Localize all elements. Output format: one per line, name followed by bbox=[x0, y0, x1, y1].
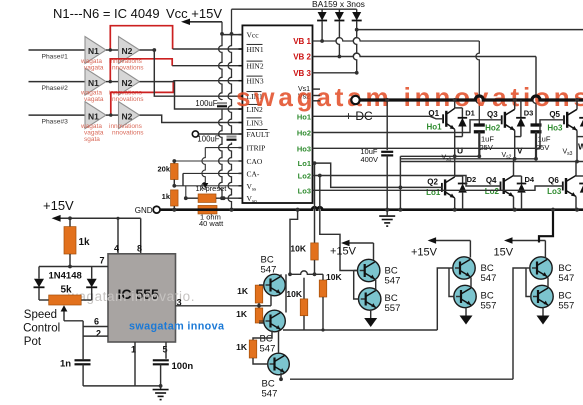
svg-text:Ho3: Ho3 bbox=[547, 123, 563, 132]
svg-text:25V: 25V bbox=[480, 143, 493, 152]
svg-text:Ho2: Ho2 bbox=[485, 123, 501, 132]
svg-text:1k: 1k bbox=[79, 237, 91, 248]
svg-text:Lo2: Lo2 bbox=[485, 187, 500, 196]
svg-text:6: 6 bbox=[94, 317, 99, 327]
svg-text:N2: N2 bbox=[122, 46, 133, 56]
svg-text:Ho3: Ho3 bbox=[297, 144, 311, 153]
svg-text:5: 5 bbox=[163, 345, 168, 355]
svg-text:Q6: Q6 bbox=[548, 176, 559, 185]
svg-text:Q4: Q4 bbox=[486, 176, 497, 185]
svg-text:swagatam innova: swagatam innova bbox=[129, 321, 225, 333]
svg-text:20k: 20k bbox=[157, 165, 170, 174]
svg-text:547: 547 bbox=[262, 389, 278, 400]
svg-text:D4: D4 bbox=[525, 175, 535, 184]
svg-text:N2: N2 bbox=[122, 111, 133, 121]
svg-text:W: W bbox=[578, 142, 583, 152]
svg-text:40 watt: 40 watt bbox=[199, 219, 224, 228]
svg-text:100uF: 100uF bbox=[197, 135, 219, 144]
svg-text:Lo1: Lo1 bbox=[426, 188, 441, 197]
svg-text:100n: 100n bbox=[172, 361, 194, 372]
svg-text:N1: N1 bbox=[88, 46, 99, 56]
svg-text:1k: 1k bbox=[162, 192, 171, 201]
svg-text:1n: 1n bbox=[60, 359, 71, 370]
svg-text:5k: 5k bbox=[61, 285, 73, 296]
svg-text:V: V bbox=[517, 146, 523, 156]
svg-text:GND: GND bbox=[135, 206, 153, 215]
svg-text:HIN2: HIN2 bbox=[247, 62, 264, 71]
svg-text:vagata: vagata bbox=[84, 96, 104, 103]
svg-text:VB 1: VB 1 bbox=[293, 37, 311, 46]
svg-text:N1: N1 bbox=[88, 78, 99, 88]
svg-text:557: 557 bbox=[558, 301, 574, 312]
svg-text:N1---N6 = IC 4049: N1---N6 = IC 4049 bbox=[53, 6, 160, 21]
svg-text:4: 4 bbox=[114, 244, 119, 254]
svg-text:Lo1: Lo1 bbox=[298, 159, 311, 168]
svg-text:CA-: CA- bbox=[247, 169, 260, 178]
svg-text:Phase#1: Phase#1 bbox=[42, 54, 69, 61]
svg-text:557: 557 bbox=[481, 301, 497, 312]
svg-text:Ho1: Ho1 bbox=[426, 122, 442, 131]
svg-text:D3: D3 bbox=[524, 109, 534, 118]
svg-text:BA159 x 3nos: BA159 x 3nos bbox=[312, 0, 365, 9]
svg-text:ITRIP: ITRIP bbox=[247, 144, 266, 153]
svg-text:vagata: vagata bbox=[84, 65, 104, 72]
svg-text:Q2: Q2 bbox=[427, 177, 438, 186]
svg-text:+15V: +15V bbox=[43, 198, 74, 213]
svg-text:D2: D2 bbox=[467, 175, 477, 184]
svg-text:100uF: 100uF bbox=[195, 99, 217, 108]
svg-text:400V: 400V bbox=[360, 155, 378, 164]
svg-text:10K: 10K bbox=[290, 244, 306, 254]
svg-text:nnovations: nnovations bbox=[112, 130, 144, 137]
svg-text:LIN3: LIN3 bbox=[247, 119, 263, 128]
svg-text:547: 547 bbox=[260, 344, 276, 355]
svg-text:U: U bbox=[457, 146, 463, 156]
svg-text:Ho2: Ho2 bbox=[297, 129, 311, 138]
svg-text:10K: 10K bbox=[286, 289, 302, 299]
svg-text:D1: D1 bbox=[465, 109, 475, 118]
svg-text:8: 8 bbox=[137, 244, 142, 254]
svg-text:Q3: Q3 bbox=[487, 110, 498, 119]
svg-text:HIN1: HIN1 bbox=[247, 45, 264, 54]
svg-text:1N4148: 1N4148 bbox=[49, 271, 82, 282]
svg-text:CAO: CAO bbox=[247, 157, 263, 166]
svg-text:1k preset: 1k preset bbox=[196, 184, 228, 193]
svg-text:2: 2 bbox=[96, 329, 101, 339]
svg-text:+15V: +15V bbox=[411, 247, 438, 259]
svg-text:10K: 10K bbox=[326, 272, 342, 282]
svg-text:Phase#3: Phase#3 bbox=[42, 119, 69, 126]
svg-text:547: 547 bbox=[558, 273, 574, 284]
svg-text:Pot: Pot bbox=[24, 336, 42, 348]
svg-text:Ho1: Ho1 bbox=[297, 112, 311, 121]
svg-text:N1: N1 bbox=[88, 111, 99, 121]
svg-text:Vcc +15V: Vcc +15V bbox=[166, 6, 222, 21]
svg-text:Vcc: Vcc bbox=[247, 31, 260, 40]
svg-text:Lo3: Lo3 bbox=[547, 187, 562, 196]
svg-text:547: 547 bbox=[481, 273, 497, 284]
svg-text:Lo2: Lo2 bbox=[298, 172, 311, 181]
svg-text:15V: 15V bbox=[494, 247, 514, 259]
svg-text:FAULT: FAULT bbox=[247, 130, 270, 139]
svg-text:N2: N2 bbox=[122, 78, 133, 88]
svg-text:1K: 1K bbox=[236, 342, 248, 352]
svg-text:Phase#2: Phase#2 bbox=[42, 85, 69, 92]
svg-text:7: 7 bbox=[100, 256, 105, 266]
svg-text:25V: 25V bbox=[536, 143, 549, 152]
svg-text:Control: Control bbox=[23, 323, 60, 335]
svg-text:VB 3: VB 3 bbox=[293, 69, 311, 78]
svg-text:+15V: +15V bbox=[330, 246, 357, 258]
svg-text:nnovations: nnovations bbox=[112, 65, 144, 72]
svg-text:VB 2: VB 2 bbox=[293, 53, 311, 62]
svg-text:Speed: Speed bbox=[24, 309, 57, 321]
svg-text:557: 557 bbox=[385, 303, 401, 314]
svg-text:sgata: sgata bbox=[84, 136, 100, 143]
svg-text:1K: 1K bbox=[237, 286, 249, 296]
svg-text:547: 547 bbox=[385, 276, 401, 287]
svg-text:nnovations: nnovations bbox=[112, 96, 144, 103]
svg-text:1K: 1K bbox=[236, 309, 248, 319]
svg-text:Q5: Q5 bbox=[549, 110, 560, 119]
svg-text:Lo3: Lo3 bbox=[298, 186, 311, 195]
